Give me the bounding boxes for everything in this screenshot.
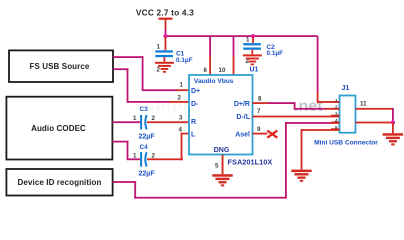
svg-text:U1: U1 (250, 67, 259, 74)
svg-text:.net: .net (294, 98, 323, 115)
svg-text:D+: D+ (191, 88, 200, 95)
svg-text:C3: C3 (140, 106, 149, 113)
svg-text:R: R (191, 119, 196, 126)
svg-text:FSA201L10X: FSA201L10X (228, 157, 273, 166)
node junction C2 (251, 34, 255, 38)
wire FS USB to D- (113, 68, 189, 103)
svg-text:10: 10 (219, 67, 226, 74)
block Device ID recognition (6, 169, 112, 196)
wire VCC top rail (165, 35, 318, 37)
node VCC label (136, 7, 194, 17)
svg-text:1: 1 (133, 152, 137, 159)
svg-text:0.1µF: 0.1µF (267, 50, 284, 57)
node junction shield (391, 120, 395, 124)
svg-text:2: 2 (152, 115, 156, 122)
svg-text:7: 7 (257, 108, 261, 115)
wire U1 pin6 stub (209, 36, 211, 75)
svg-text:11: 11 (360, 100, 367, 107)
wire shield to ground (392, 123, 394, 134)
svg-text:2: 2 (157, 67, 161, 74)
wire U1 pin5 GND (215, 155, 223, 175)
svg-text:4: 4 (179, 126, 183, 133)
wire U1 pin7 to J1 (253, 108, 340, 118)
capacitor C4 (139, 144, 156, 178)
wire U1 pin9 Asel no-connect (253, 126, 278, 138)
ground mini USB shell (291, 170, 311, 182)
wire J1 pin5 GND (301, 129, 340, 170)
op-amp U1 FSA201 (189, 67, 259, 155)
svg-text:9: 9 (257, 126, 261, 133)
svg-text:D-/L: D-/L (236, 114, 250, 121)
svg-text:1: 1 (180, 82, 184, 89)
watermark (146, 97, 323, 115)
svg-text:22µF: 22µF (139, 171, 156, 178)
wire U1 pin8 to J1 (253, 96, 340, 110)
svg-text:22µF: 22µF (139, 134, 156, 141)
wire J1 pin11 shield (356, 100, 394, 123)
wire C3 to R pin3 (147, 114, 189, 123)
ground C1 (155, 62, 174, 73)
wire U1 pin10 stub (233, 36, 235, 75)
svg-text:Device ID recognition: Device ID recognition (18, 178, 102, 187)
ground U1 pin5 (212, 174, 232, 186)
svg-text:C4: C4 (140, 144, 149, 151)
ground C2 (243, 54, 262, 65)
wire C4 to L pin4 (147, 126, 189, 160)
wire VBUS to J1 pin1 (317, 36, 340, 103)
svg-text:2: 2 (152, 152, 156, 159)
svg-text:0.1µF: 0.1µF (176, 57, 193, 64)
capacitor C1 (155, 36, 192, 74)
svg-text:J1: J1 (342, 85, 350, 92)
svg-text:Audio CODEC: Audio CODEC (31, 124, 86, 133)
svg-text:1: 1 (133, 115, 137, 122)
svg-text:5: 5 (335, 125, 338, 130)
wire Device ID to J1 pin4 (113, 122, 340, 199)
power VCC bar (159, 18, 173, 37)
connector J1 Mini USB (331, 85, 356, 133)
svg-text:8: 8 (258, 96, 262, 103)
svg-text:1: 1 (335, 98, 338, 103)
svg-text:4: 4 (335, 118, 338, 123)
svg-text:Mini USB Connector: Mini USB Connector (314, 139, 378, 146)
svg-text:3: 3 (335, 111, 338, 116)
wire CODEC to C3 (112, 115, 140, 123)
block FS USB Source (9, 50, 113, 82)
capacitor C3 (139, 106, 156, 141)
svg-text:D-: D- (191, 101, 199, 108)
svg-text:L: L (191, 131, 196, 138)
svg-text:2: 2 (335, 105, 338, 110)
svg-text:1: 1 (246, 37, 250, 44)
svg-text:FS USB Source: FS USB Source (30, 62, 90, 71)
block Audio CODEC (6, 97, 112, 160)
ground J1 shield (383, 133, 403, 145)
node junction VCC/C1 (163, 34, 167, 38)
svg-text:D+/R: D+/R (234, 101, 250, 108)
wire FS USB to D+ (113, 56, 189, 91)
wire CODEC to C4 (112, 141, 140, 161)
svg-text:5: 5 (215, 163, 219, 170)
svg-text:3: 3 (179, 114, 183, 121)
capacitor C2 (243, 36, 283, 65)
svg-text:DNG: DNG (214, 147, 230, 154)
svg-text:2: 2 (178, 94, 182, 101)
svg-text:VCC 2.7 to 4.3: VCC 2.7 to 4.3 (136, 7, 194, 17)
svg-text:Asel: Asel (235, 131, 250, 138)
svg-text:1: 1 (157, 44, 161, 51)
svg-text:6: 6 (204, 67, 208, 74)
svg-text:Vaudio Vbus: Vaudio Vbus (194, 78, 234, 85)
